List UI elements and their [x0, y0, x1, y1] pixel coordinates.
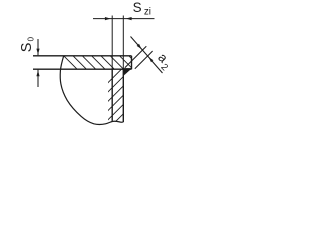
web right edge — [122, 69, 124, 122]
dimension line — [131, 37, 163, 74]
web left edge — [111, 69, 113, 121]
plate bottom edge — [33, 68, 132, 70]
break line (freehand curve) — [60, 56, 123, 125]
web section hatching — [100, 56, 135, 147]
dim line — [93, 18, 155, 20]
plate right end face — [131, 56, 133, 69]
extension lines — [111, 16, 113, 70]
extension line along weld face — [135, 51, 153, 69]
fillet weld (black) — [123, 68, 131, 75]
svg-text:a2: a2 — [152, 50, 175, 73]
extension line through weld root — [125, 46, 147, 67]
arrows — [105, 17, 111, 20]
upper dim line with down arrow — [37, 39, 39, 55]
svg-text:Szi: Szi — [133, 0, 151, 17]
S0 dimension — [36, 39, 39, 87]
plate section hatching — [50, 42, 157, 84]
a2 dimension — [125, 37, 163, 74]
lower dim line with up arrow — [37, 70, 39, 87]
svg-text:S0: S0 — [19, 36, 36, 52]
plate top edge — [33, 55, 132, 57]
Szi dimension — [93, 16, 155, 70]
arrows — [137, 44, 142, 49]
